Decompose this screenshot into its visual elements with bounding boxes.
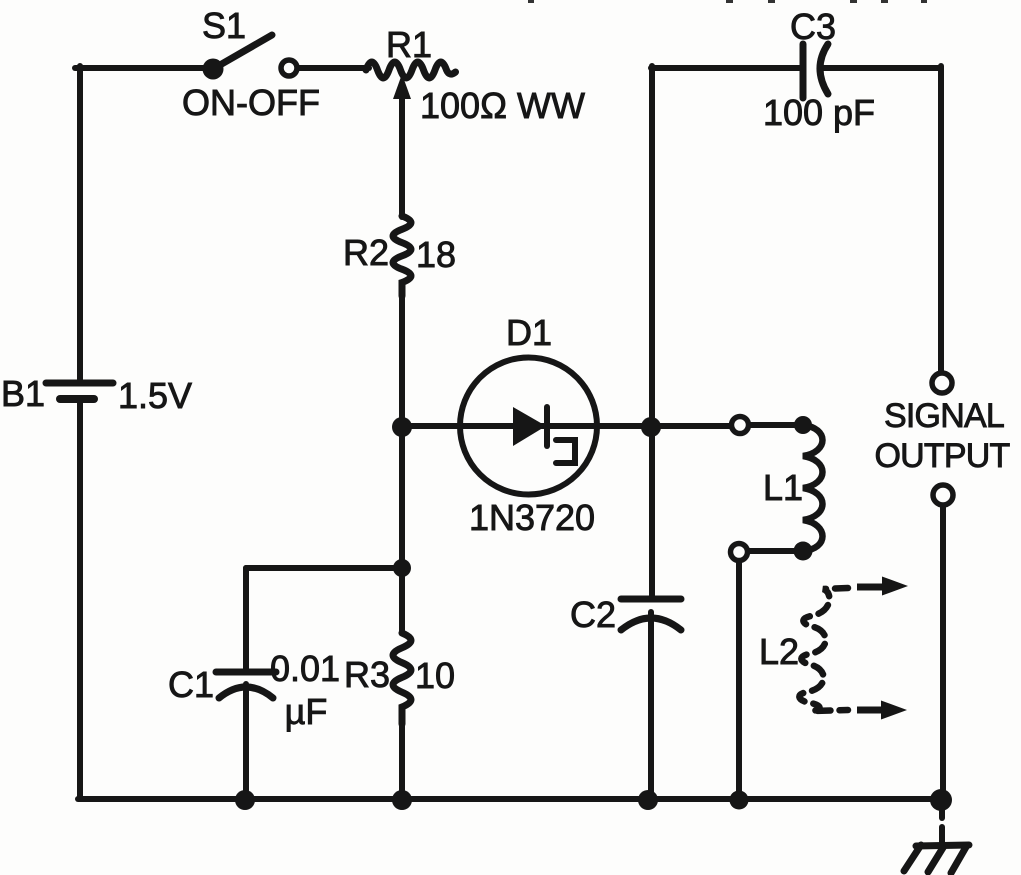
svg-text:0.01: 0.01 — [270, 648, 340, 689]
svg-text:L1: L1 — [763, 467, 803, 508]
svg-text:µF: µF — [285, 691, 328, 732]
svg-text:100Ω WW: 100Ω WW — [420, 85, 585, 126]
svg-text:100 pF: 100 pF — [763, 92, 875, 133]
svg-text:S1: S1 — [202, 5, 246, 46]
svg-text:OUTPUT: OUTPUT — [875, 437, 1010, 475]
svg-text:C2: C2 — [570, 594, 616, 635]
svg-text:R2: R2 — [343, 232, 389, 273]
svg-text:D1: D1 — [506, 312, 552, 353]
svg-text:ON-OFF: ON-OFF — [182, 82, 320, 123]
svg-text:C1: C1 — [168, 664, 214, 705]
svg-text:R3: R3 — [344, 654, 390, 695]
svg-text:L2: L2 — [759, 631, 799, 672]
svg-text:18: 18 — [416, 234, 456, 275]
svg-text:1N3720: 1N3720 — [469, 497, 595, 538]
svg-text:10: 10 — [415, 655, 455, 696]
svg-text:C3: C3 — [790, 6, 836, 47]
svg-text:SIGNAL: SIGNAL — [884, 397, 1004, 435]
svg-text:R1: R1 — [386, 24, 432, 65]
svg-text:1.5V: 1.5V — [118, 375, 192, 416]
svg-text:B1: B1 — [1, 373, 45, 414]
